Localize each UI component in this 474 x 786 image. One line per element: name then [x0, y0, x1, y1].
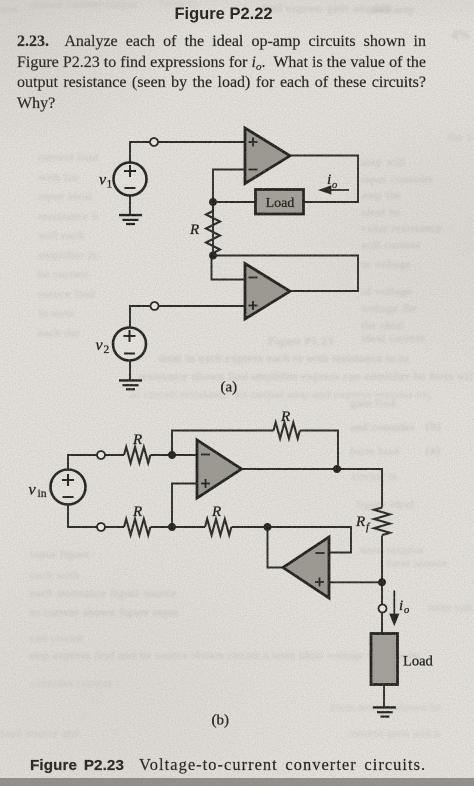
svg-text:R: R	[132, 504, 142, 520]
svg-text:in: in	[38, 488, 47, 500]
svg-text:2: 2	[104, 344, 110, 356]
svg-text:(b): (b)	[212, 713, 230, 729]
svg-text:R: R	[189, 222, 199, 238]
svg-text:i: i	[399, 598, 403, 614]
svg-text:v: v	[96, 337, 104, 354]
svg-text:R: R	[211, 504, 221, 520]
svg-text:Load: Load	[403, 654, 434, 670]
svg-text:R: R	[355, 514, 365, 530]
svg-text:Load: Load	[266, 196, 295, 211]
svg-text:1: 1	[107, 179, 113, 191]
svg-text:v: v	[29, 482, 37, 499]
svg-text:o: o	[332, 180, 337, 191]
svg-text:(a): (a)	[221, 380, 238, 396]
svg-text:o: o	[404, 605, 409, 616]
svg-text:R: R	[132, 432, 142, 448]
svg-text:R: R	[280, 409, 290, 425]
svg-text:i: i	[327, 172, 331, 188]
svg-text:f: f	[366, 521, 371, 533]
